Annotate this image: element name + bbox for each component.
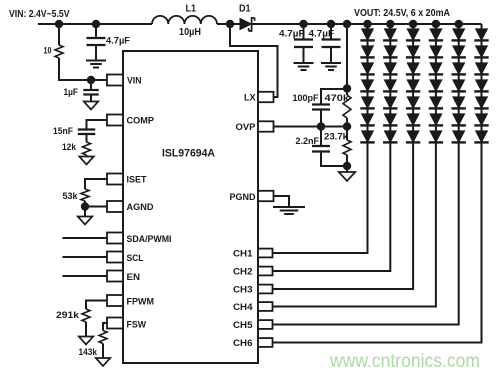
svg-text:470k: 470k — [325, 93, 350, 104]
svg-text:100pF: 100pF — [293, 93, 319, 104]
svg-text:SDA/PWMI: SDA/PWMI — [127, 234, 172, 245]
svg-text:10µH: 10µH — [179, 27, 201, 38]
svg-text:4.7µF: 4.7µF — [309, 29, 335, 40]
svg-text:15nF: 15nF — [53, 126, 73, 137]
svg-text:VOUT: 24.5V, 6 x 20mA: VOUT: 24.5V, 6 x 20mA — [354, 7, 450, 19]
svg-text:291k: 291k — [56, 310, 80, 321]
svg-text:EN: EN — [127, 272, 141, 283]
svg-text:LX: LX — [244, 93, 256, 104]
svg-text:AGND: AGND — [127, 202, 154, 213]
svg-text:SCL: SCL — [127, 253, 144, 264]
svg-text:D1: D1 — [239, 4, 251, 15]
svg-text:23.7k: 23.7k — [324, 132, 349, 143]
svg-text:10: 10 — [44, 46, 52, 57]
svg-text:L1: L1 — [186, 4, 197, 15]
svg-text:CH5: CH5 — [233, 320, 253, 331]
svg-text:4.7µF: 4.7µF — [279, 29, 305, 40]
svg-text:VIN: VIN — [127, 75, 142, 86]
svg-text:www.cntronics.com: www.cntronics.com — [329, 351, 480, 372]
svg-text:53k: 53k — [63, 191, 79, 202]
svg-text:1µF: 1µF — [64, 87, 79, 98]
svg-text:CH2: CH2 — [233, 267, 253, 278]
svg-text:VIN: 2.4V~5.5V: VIN: 2.4V~5.5V — [9, 8, 70, 20]
svg-text:FSW: FSW — [127, 320, 147, 331]
svg-text:2.2nF: 2.2nF — [296, 136, 320, 147]
svg-text:CH3: CH3 — [233, 285, 253, 296]
svg-text:12k: 12k — [62, 142, 77, 153]
svg-text:4.7µF: 4.7µF — [106, 36, 130, 47]
svg-text:CH4: CH4 — [233, 302, 253, 313]
svg-text:FPWM: FPWM — [127, 296, 155, 307]
svg-text:CH1: CH1 — [233, 249, 253, 260]
svg-text:PGND: PGND — [230, 192, 256, 203]
svg-text:OVP: OVP — [236, 122, 257, 133]
svg-text:ISET: ISET — [127, 175, 147, 186]
svg-text:CH6: CH6 — [233, 338, 253, 349]
svg-text:143k: 143k — [79, 347, 98, 358]
svg-text:ISL97694A: ISL97694A — [162, 148, 215, 160]
svg-text:COMP: COMP — [127, 116, 155, 127]
